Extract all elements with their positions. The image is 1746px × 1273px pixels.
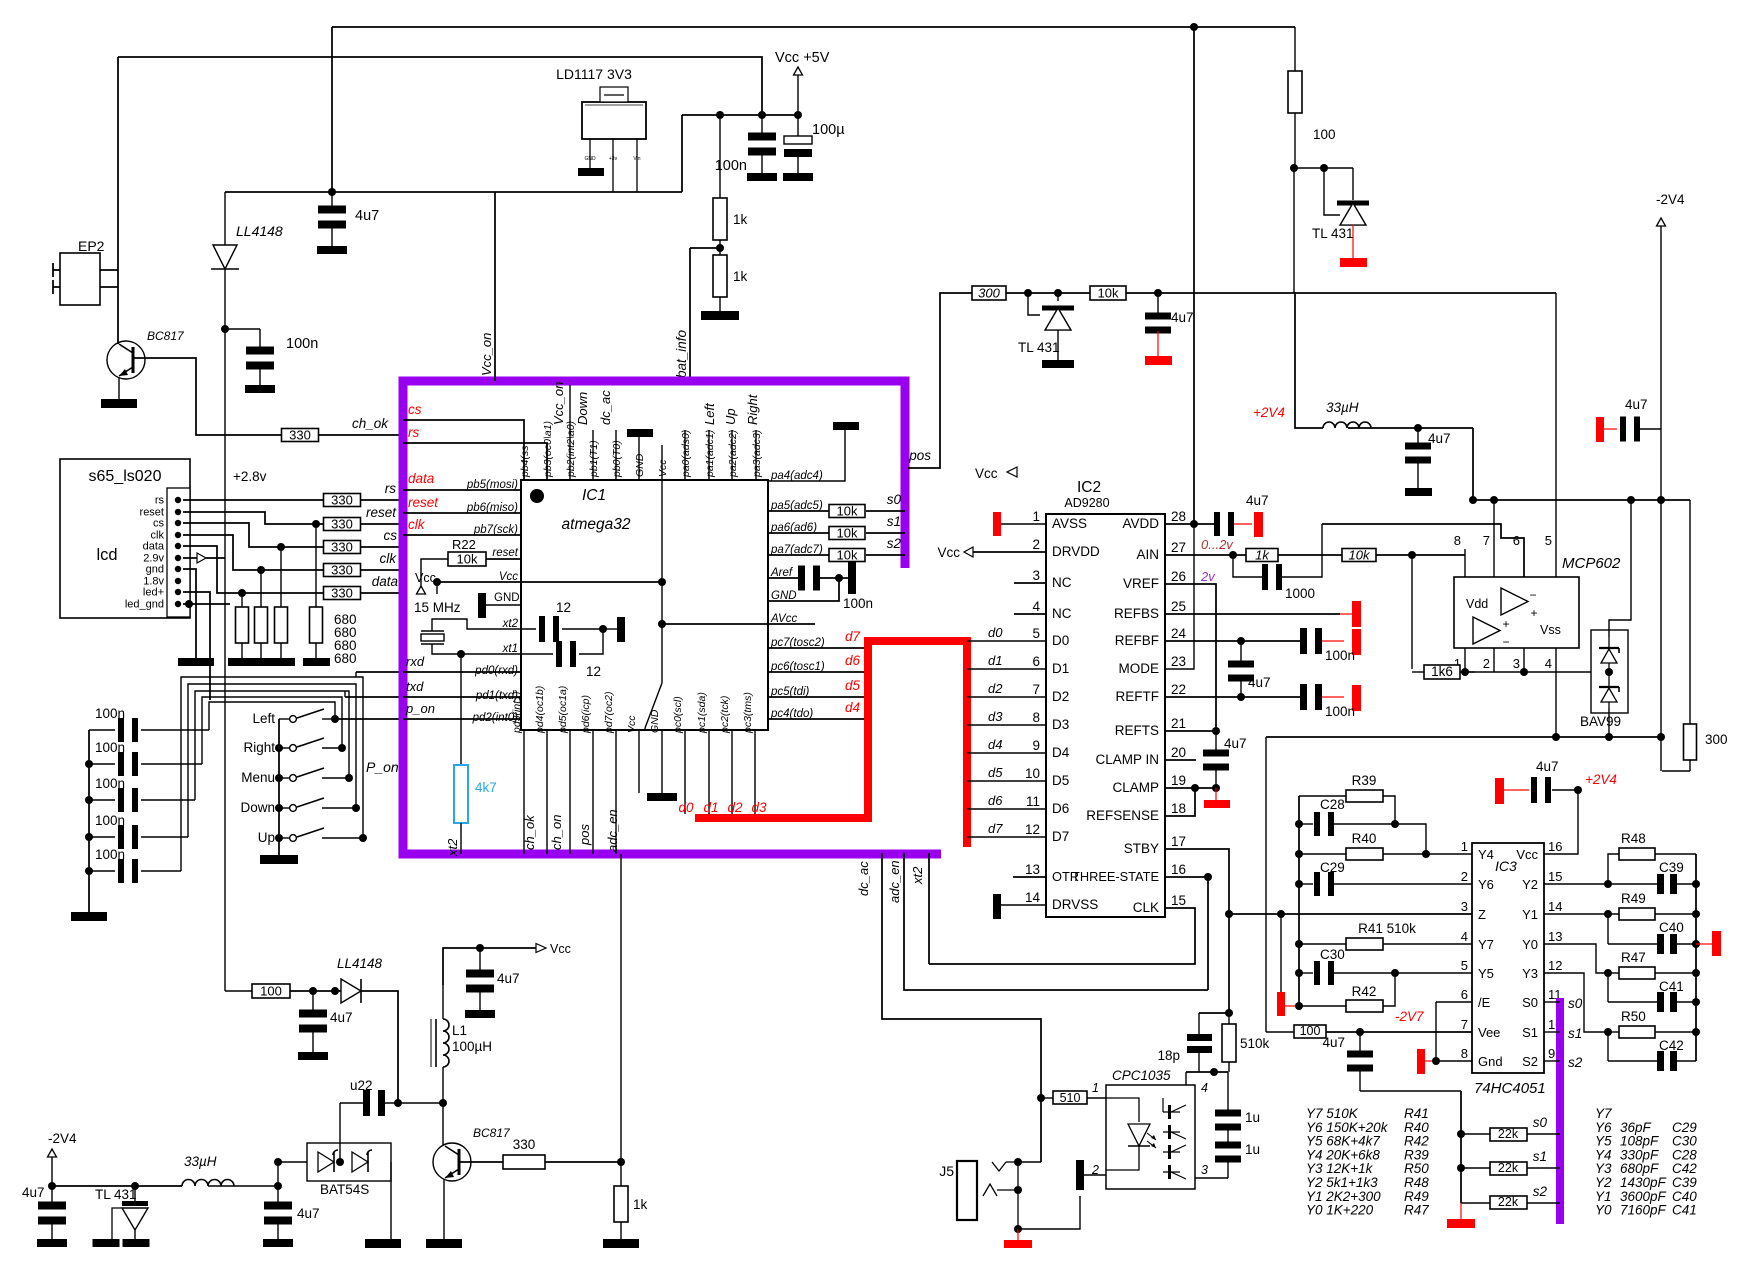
label d1 <box>703 800 718 815</box>
svg-text:R42: R42 <box>1352 984 1377 999</box>
label EP2 <box>78 238 105 254</box>
wire left bus x1299 <box>1295 796 1303 1006</box>
svg-text:R39: R39 <box>1352 773 1377 788</box>
svg-text:Up: Up <box>258 830 275 845</box>
svg-text:S0: S0 <box>1522 995 1538 1010</box>
svg-text:lcd: lcd <box>96 546 117 564</box>
wire Y3 jog <box>1544 973 1608 1032</box>
svg-text:pd4(oc1b): pd4(oc1b) <box>534 686 546 734</box>
svg-text:36pF: 36pF <box>1620 1120 1652 1135</box>
svg-text:xt1: xt1 <box>502 643 518 655</box>
svg-text:S2: S2 <box>1522 1054 1538 1069</box>
wire lcd rs <box>183 499 324 501</box>
capacitor C30 <box>1299 947 1472 985</box>
svg-text:reset: reset <box>492 547 518 559</box>
svg-text:108pF: 108pF <box>1620 1134 1659 1149</box>
label 4u7 33uH <box>1428 431 1451 446</box>
svg-text:GND: GND <box>649 709 661 733</box>
svg-text:u22: u22 <box>350 1078 373 1093</box>
MCP602 pin7 <box>1483 496 1498 577</box>
svg-text:d4: d4 <box>845 700 860 715</box>
label Vcc +5V <box>775 50 830 66</box>
svg-text:clk: clk <box>408 517 426 532</box>
wire 4k7 net <box>460 654 462 765</box>
svg-text:Y1 2K2+300: Y1 2K2+300 <box>1306 1189 1381 1204</box>
label Vcc_on outside <box>479 333 494 376</box>
svg-text:pb0(T0): pb0(T0) <box>611 440 623 478</box>
svg-text:C29: C29 <box>1672 1120 1697 1135</box>
svg-text:4u7: 4u7 <box>1322 1035 1345 1050</box>
label d7 <box>845 629 861 644</box>
wire AVDD <box>1165 520 1215 528</box>
resistor 330 ch_ok <box>282 428 319 443</box>
svg-text:Vcc +5V: Vcc +5V <box>775 50 830 66</box>
resistor 330 cs <box>324 540 361 555</box>
svg-text:Y3: Y3 <box>1522 966 1538 981</box>
resistor 22k s2 <box>1461 1195 1560 1209</box>
label d4 <box>845 700 860 715</box>
resistor 100 top right <box>1288 27 1302 168</box>
resistor 300 (pos) <box>972 286 1006 301</box>
svg-text:Right: Right <box>243 740 275 755</box>
ground BC817 <box>101 399 137 408</box>
ground 100n common <box>71 912 107 921</box>
svg-text:reset: reset <box>366 505 397 520</box>
wire DRVDD Vcc <box>937 545 1046 560</box>
label 4u7 AVDD <box>1246 493 1269 508</box>
svg-text:2: 2 <box>1461 869 1468 884</box>
gnd bar Aref <box>848 562 856 594</box>
svg-text:pd0(rxd): pd0(rxd) <box>474 665 518 677</box>
diode LL4148 bottom <box>335 979 361 1003</box>
svg-text:-2V4: -2V4 <box>48 1131 77 1146</box>
junction TL431 tr <box>1290 164 1298 172</box>
svg-text:Y7: Y7 <box>1595 1106 1612 1121</box>
svg-text:D6: D6 <box>1052 801 1069 816</box>
svg-text:-2V7: -2V7 <box>1395 1009 1424 1024</box>
diode BAV99 top <box>1599 637 1619 672</box>
IC1 left pin names <box>466 479 519 724</box>
svg-text:Y7 510K: Y7 510K <box>1306 1106 1359 1121</box>
svg-text:R47: R47 <box>1404 1203 1429 1218</box>
wire rxd <box>403 671 521 673</box>
label s1 <box>887 514 901 529</box>
wires button loops <box>181 677 363 871</box>
capacitor C42 <box>1608 1032 1696 1071</box>
capacitor C39 <box>1544 860 1696 894</box>
svg-text:CLK: CLK <box>1133 900 1159 915</box>
wire riser x682 <box>681 115 683 192</box>
wire top rail y57 <box>118 57 762 115</box>
svg-text:C28: C28 <box>1320 797 1345 812</box>
wire R22 to reset <box>486 558 521 560</box>
label bat_info <box>674 329 689 378</box>
wire top rail y27 <box>332 26 1295 28</box>
junction x332 y192 <box>328 188 336 196</box>
capacitor 4u7 Vee <box>1347 1032 1373 1091</box>
svg-text:Y6: Y6 <box>1478 877 1494 892</box>
label CPC1035 <box>1112 1068 1171 1083</box>
capacitor u22 <box>340 1090 447 1116</box>
svg-text:data: data <box>372 574 399 589</box>
label 4u7 10k <box>1171 310 1194 325</box>
svg-text:LD1117 3V3: LD1117 3V3 <box>556 66 632 82</box>
wire STBY <box>1165 849 1233 1017</box>
wire L1 to collector <box>442 1067 444 1143</box>
capacitor 4u7 (L1) <box>466 948 494 1010</box>
svg-text:BAT54S: BAT54S <box>320 1182 369 1197</box>
wire Vcc bottom pin <box>638 730 640 793</box>
CPC transistors <box>1163 1098 1186 1179</box>
svg-text:Y2: Y2 <box>1595 1175 1612 1190</box>
svg-text:s65_ls020: s65_ls020 <box>89 468 162 485</box>
svg-text:330: 330 <box>331 563 353 578</box>
svg-text:14: 14 <box>1025 890 1041 905</box>
svg-text:R50: R50 <box>1621 1009 1646 1024</box>
capacitor 4u7 -2V4 <box>38 1186 66 1239</box>
wire reset to IC1 <box>361 523 403 525</box>
svg-text:0...2v: 0...2v <box>1201 537 1234 552</box>
junction y115 x798 <box>794 111 802 119</box>
inductor L1 100uH <box>431 985 449 1067</box>
svg-text:xt2: xt2 <box>502 618 519 630</box>
svg-text:24: 24 <box>1171 626 1187 641</box>
svg-text:R39: R39 <box>1404 1147 1429 1162</box>
svg-text:300: 300 <box>1705 732 1728 747</box>
svg-text:1: 1 <box>1461 839 1468 854</box>
wire 1k-10k <box>1278 554 1343 556</box>
svg-text:d5: d5 <box>988 765 1003 780</box>
label d3 <box>751 800 767 815</box>
IC1 top pin stubs+names <box>542 385 763 480</box>
svg-text:4u7: 4u7 <box>1536 759 1559 774</box>
svg-text:12: 12 <box>586 664 601 679</box>
wire clk to IC1 <box>361 569 403 571</box>
wire Vss riser x1661 <box>1657 496 1665 771</box>
capacitor 1u lower <box>1215 1142 1241 1179</box>
label 1u upper <box>1245 1110 1260 1125</box>
resistor 10k AIN <box>1342 548 1376 563</box>
wire REFBF <box>1165 637 1300 645</box>
label s65_ls020 <box>89 468 162 485</box>
svg-text:rs: rs <box>385 481 396 496</box>
svg-text:data: data <box>408 471 435 486</box>
svg-text:4u7: 4u7 <box>1171 310 1194 325</box>
wire Vcc pin IC1 <box>433 578 521 594</box>
red ground 22k <box>1447 1203 1475 1228</box>
svg-text:adc_en: adc_en <box>887 860 902 903</box>
label 15 MHz <box>414 600 461 615</box>
label 12 (xt1) <box>586 664 601 679</box>
table Y values right <box>1595 1106 1697 1218</box>
wire BAT54S right gnd <box>390 1162 392 1239</box>
label IC1 <box>582 487 606 504</box>
power -2V4 arrow right <box>1657 218 1666 429</box>
svg-text:VREF: VREF <box>1123 576 1159 591</box>
wire lcd gnd <box>183 569 196 658</box>
resistor 22k s0 <box>1461 1127 1560 1141</box>
wire J5 tip <box>1018 1161 1041 1163</box>
capacitor 4u7 (BAT54S) <box>264 1186 292 1239</box>
svg-text:LL4148: LL4148 <box>236 223 283 239</box>
svg-text:100n: 100n <box>1325 704 1355 719</box>
svg-text:xt2: xt2 <box>910 866 925 885</box>
label 4u7 REFTS <box>1224 736 1247 751</box>
svg-text:12: 12 <box>1025 822 1040 837</box>
wire lcd reset <box>183 512 324 524</box>
label xt2 bottom <box>445 838 460 857</box>
label Left (pa1) <box>702 402 717 425</box>
wire p_on pd2 <box>403 718 521 720</box>
svg-text:pos: pos <box>908 448 931 463</box>
wire THREE-STATE <box>1165 873 1212 990</box>
svg-text:data: data <box>143 541 165 553</box>
label AD9280 <box>1064 496 1109 510</box>
resistor R41 510k <box>1299 921 1472 950</box>
label TL431 tr <box>1312 226 1354 241</box>
transistor BC817 (boost) <box>433 1143 471 1181</box>
svg-text:Vin: Vin <box>633 156 640 162</box>
LD1117 pin1 GND <box>584 139 596 168</box>
ground 4u7 BAT54S <box>263 1239 293 1247</box>
red bar R42 <box>1277 992 1303 1016</box>
svg-text:MCP602: MCP602 <box>1562 555 1621 572</box>
wire AIN <box>1165 551 1247 559</box>
wire lcd data <box>183 546 324 593</box>
wire /E <box>1436 1001 1472 1003</box>
wire 22k common <box>1457 1091 1465 1203</box>
wire bat_info riser <box>689 248 691 381</box>
wire pin8 from 10k <box>1411 555 1413 669</box>
label 33uH mid <box>1326 400 1359 415</box>
svg-text:p_on: p_on <box>405 701 435 716</box>
resistor 22k s1 <box>1461 1161 1560 1175</box>
svg-text:R48: R48 <box>1621 831 1646 846</box>
svg-text:cs: cs <box>384 528 398 543</box>
svg-text:Vcc: Vcc <box>415 571 436 585</box>
label 4u7 boost <box>330 1010 353 1025</box>
svg-text:4u7: 4u7 <box>1246 493 1269 508</box>
connector s65_ls020 box <box>60 459 190 618</box>
wire CLK <box>929 908 1195 964</box>
svg-text:27: 27 <box>1171 540 1186 555</box>
svg-text:100: 100 <box>260 984 282 999</box>
MCP602 pin8 <box>1454 533 1465 577</box>
svg-text:1: 1 <box>1092 1081 1099 1095</box>
svg-text:+2V4: +2V4 <box>1253 405 1285 420</box>
resistor R39 <box>1299 773 1399 828</box>
svg-text:-2V4: -2V4 <box>1656 192 1685 207</box>
svg-text:2: 2 <box>1483 656 1490 671</box>
svg-text:6: 6 <box>1513 533 1520 548</box>
svg-text:10k: 10k <box>1349 548 1371 563</box>
svg-text:9: 9 <box>1032 738 1040 753</box>
svg-text:510k: 510k <box>1240 1036 1270 1051</box>
svg-text:330: 330 <box>331 586 353 601</box>
svg-text:330pF: 330pF <box>1620 1147 1659 1162</box>
label rs red <box>408 425 419 440</box>
wire 33uH out <box>1348 424 1473 432</box>
svg-text:12: 12 <box>1548 958 1562 973</box>
svg-text:Y0 1K+220: Y0 1K+220 <box>1306 1203 1374 1218</box>
svg-text:STBY: STBY <box>1124 841 1159 856</box>
svg-text:R42: R42 <box>1404 1134 1429 1149</box>
label BC817 <box>147 329 185 343</box>
wire data (pb5) <box>403 489 521 491</box>
svg-text:C42: C42 <box>1659 1038 1684 1053</box>
svg-text:pos: pos <box>577 824 592 846</box>
resistor 100 (Vee) <box>1294 1024 1326 1038</box>
resistor 10k s2 <box>829 548 865 563</box>
svg-text:1430pF: 1430pF <box>1620 1175 1667 1190</box>
BC817 emitter to gnd <box>118 377 120 399</box>
gnd TL431 mid <box>1042 330 1074 368</box>
svg-text:Menu: Menu <box>241 770 275 785</box>
svg-text:3: 3 <box>1513 656 1520 671</box>
resistors 680 x4 <box>236 607 323 658</box>
svg-text:pc3(tms): pc3(tms) <box>742 692 754 734</box>
svg-text:D0: D0 <box>1052 633 1069 648</box>
wire S1 <box>1544 1031 1560 1033</box>
svg-text:Y4: Y4 <box>1595 1147 1612 1162</box>
svg-text:22k: 22k <box>1498 1195 1519 1209</box>
svg-text:S1: S1 <box>1522 1025 1538 1040</box>
label s0 <box>887 492 902 507</box>
wires D0-D7 from red bus <box>967 625 1046 837</box>
capacitor 4u7 -2V4 right <box>1596 417 1661 443</box>
label 33uH bottom <box>184 1154 217 1169</box>
wire long y737 <box>1266 733 1661 741</box>
label 74HC4051 <box>1474 1080 1546 1097</box>
label clk red <box>408 517 426 532</box>
wire lcd 2.9v <box>183 553 225 563</box>
svg-text:pb2(int2\a0): pb2(int2\a0) <box>565 421 577 478</box>
label 4u7 -2V4 <box>22 1185 45 1200</box>
svg-text:s0: s0 <box>1568 996 1583 1011</box>
diode BAT54S left <box>318 1150 338 1172</box>
resistor 1k AIN <box>1246 548 1278 563</box>
wire MODE up <box>1165 524 1194 669</box>
wire VREF 2v <box>1165 584 1216 731</box>
capacitor C40 <box>1608 914 1696 954</box>
svg-text:AVDD: AVDD <box>1122 516 1159 531</box>
TL431 top right <box>1294 164 1369 293</box>
capacitor 18p <box>1187 1013 1212 1072</box>
svg-text:Y2: Y2 <box>1522 877 1538 892</box>
svg-text:D2: D2 <box>1052 689 1069 704</box>
svg-text:MODE: MODE <box>1119 661 1160 676</box>
svg-text:5: 5 <box>1461 958 1468 973</box>
wire 300 bottom <box>1662 770 1690 772</box>
label BAV99 <box>1580 714 1621 729</box>
svg-text:clk: clk <box>380 551 398 566</box>
svg-text:Y3: Y3 <box>1595 1161 1612 1176</box>
label Right (pa3) <box>745 393 760 425</box>
label rxd <box>406 654 425 669</box>
label 1k bottom <box>633 1197 648 1212</box>
lcd pins <box>125 495 181 611</box>
svg-text:16: 16 <box>1548 839 1562 854</box>
wire BC817 base <box>133 358 282 435</box>
svg-text:P_on: P_on <box>366 759 399 775</box>
wire NC3 <box>1014 582 1046 584</box>
svg-text:100µ: 100µ <box>812 122 845 138</box>
wire Aref cap <box>820 574 848 582</box>
svg-text:d3: d3 <box>988 709 1003 724</box>
IC3 left pin names <box>1461 839 1503 1069</box>
svg-text:510: 510 <box>1060 1091 1081 1105</box>
ground switches <box>260 855 298 864</box>
svg-text:Vcc: Vcc <box>975 466 998 481</box>
label 510k <box>1240 1036 1270 1051</box>
svg-text:4u7: 4u7 <box>1625 397 1648 412</box>
wire BAT54S left <box>274 1158 307 1166</box>
red bar REFTF <box>1352 685 1361 711</box>
svg-text:100n: 100n <box>843 596 873 611</box>
junction 10k out <box>1154 289 1162 297</box>
capacitor 12p xt2 <box>539 616 559 642</box>
svg-text:REFTS: REFTS <box>1115 723 1159 738</box>
label d5 <box>845 678 861 693</box>
svg-text:11: 11 <box>1026 794 1040 809</box>
IC1 GND bar left <box>478 593 521 618</box>
svg-text:xt2: xt2 <box>445 838 460 857</box>
svg-text:25: 25 <box>1171 599 1186 614</box>
svg-text:+2.8v: +2.8v <box>233 469 267 484</box>
svg-text:pd5(oc1a): pd5(oc1a) <box>557 686 569 734</box>
wire rxd stub <box>356 672 403 677</box>
svg-text:100: 100 <box>1300 1024 1321 1038</box>
label 2v <box>1200 569 1216 584</box>
svg-text:pa1(adc1): pa1(adc1) <box>704 430 716 478</box>
ground lcd gnd <box>178 658 214 666</box>
svg-text:R48: R48 <box>1404 1175 1429 1190</box>
svg-text:33µH: 33µH <box>1326 400 1359 415</box>
MCP602 pin6 <box>1513 533 1520 548</box>
svg-text:D1: D1 <box>1052 661 1069 676</box>
wire 1u to CPC pin3 <box>1195 1177 1228 1179</box>
svg-text:+: + <box>1502 617 1509 631</box>
wire -2V4 rail <box>48 1182 182 1190</box>
IC1 bottom stubs left <box>524 730 616 854</box>
wire rs (pb3) <box>403 443 547 480</box>
red gnd 4u7 10k <box>1145 356 1172 365</box>
svg-text:REFBS: REFBS <box>1114 606 1159 621</box>
svg-text:6: 6 <box>1461 987 1468 1002</box>
wire cs (pb4) <box>403 420 524 480</box>
label 100n Aref <box>843 596 873 611</box>
wire node to CPC pin4 <box>1185 1072 1187 1085</box>
svg-text:1k6: 1k6 <box>1431 664 1453 679</box>
svg-text:pd6(icp): pd6(icp) <box>580 695 592 734</box>
svg-text:18p: 18p <box>1157 1048 1180 1063</box>
svg-text:d7: d7 <box>845 629 861 644</box>
MCP602 pin1 <box>1454 648 1465 672</box>
resistor 1k upper <box>713 115 748 240</box>
svg-text:reset: reset <box>408 495 439 510</box>
wire p_on <box>335 718 403 720</box>
transistor BC817 (charge) <box>107 341 145 379</box>
svg-text:100: 100 <box>1313 127 1336 142</box>
J5 contacts <box>983 1158 1022 1233</box>
label adc_en mid <box>887 860 902 903</box>
svg-text:EP2: EP2 <box>78 238 105 254</box>
svg-text:7: 7 <box>1483 533 1490 548</box>
diode BAV99 bottom <box>1599 668 1619 708</box>
label 18p <box>1157 1048 1180 1063</box>
label 100n REFBF <box>1325 648 1355 663</box>
red gnd IC3 <box>1417 1002 1472 1074</box>
